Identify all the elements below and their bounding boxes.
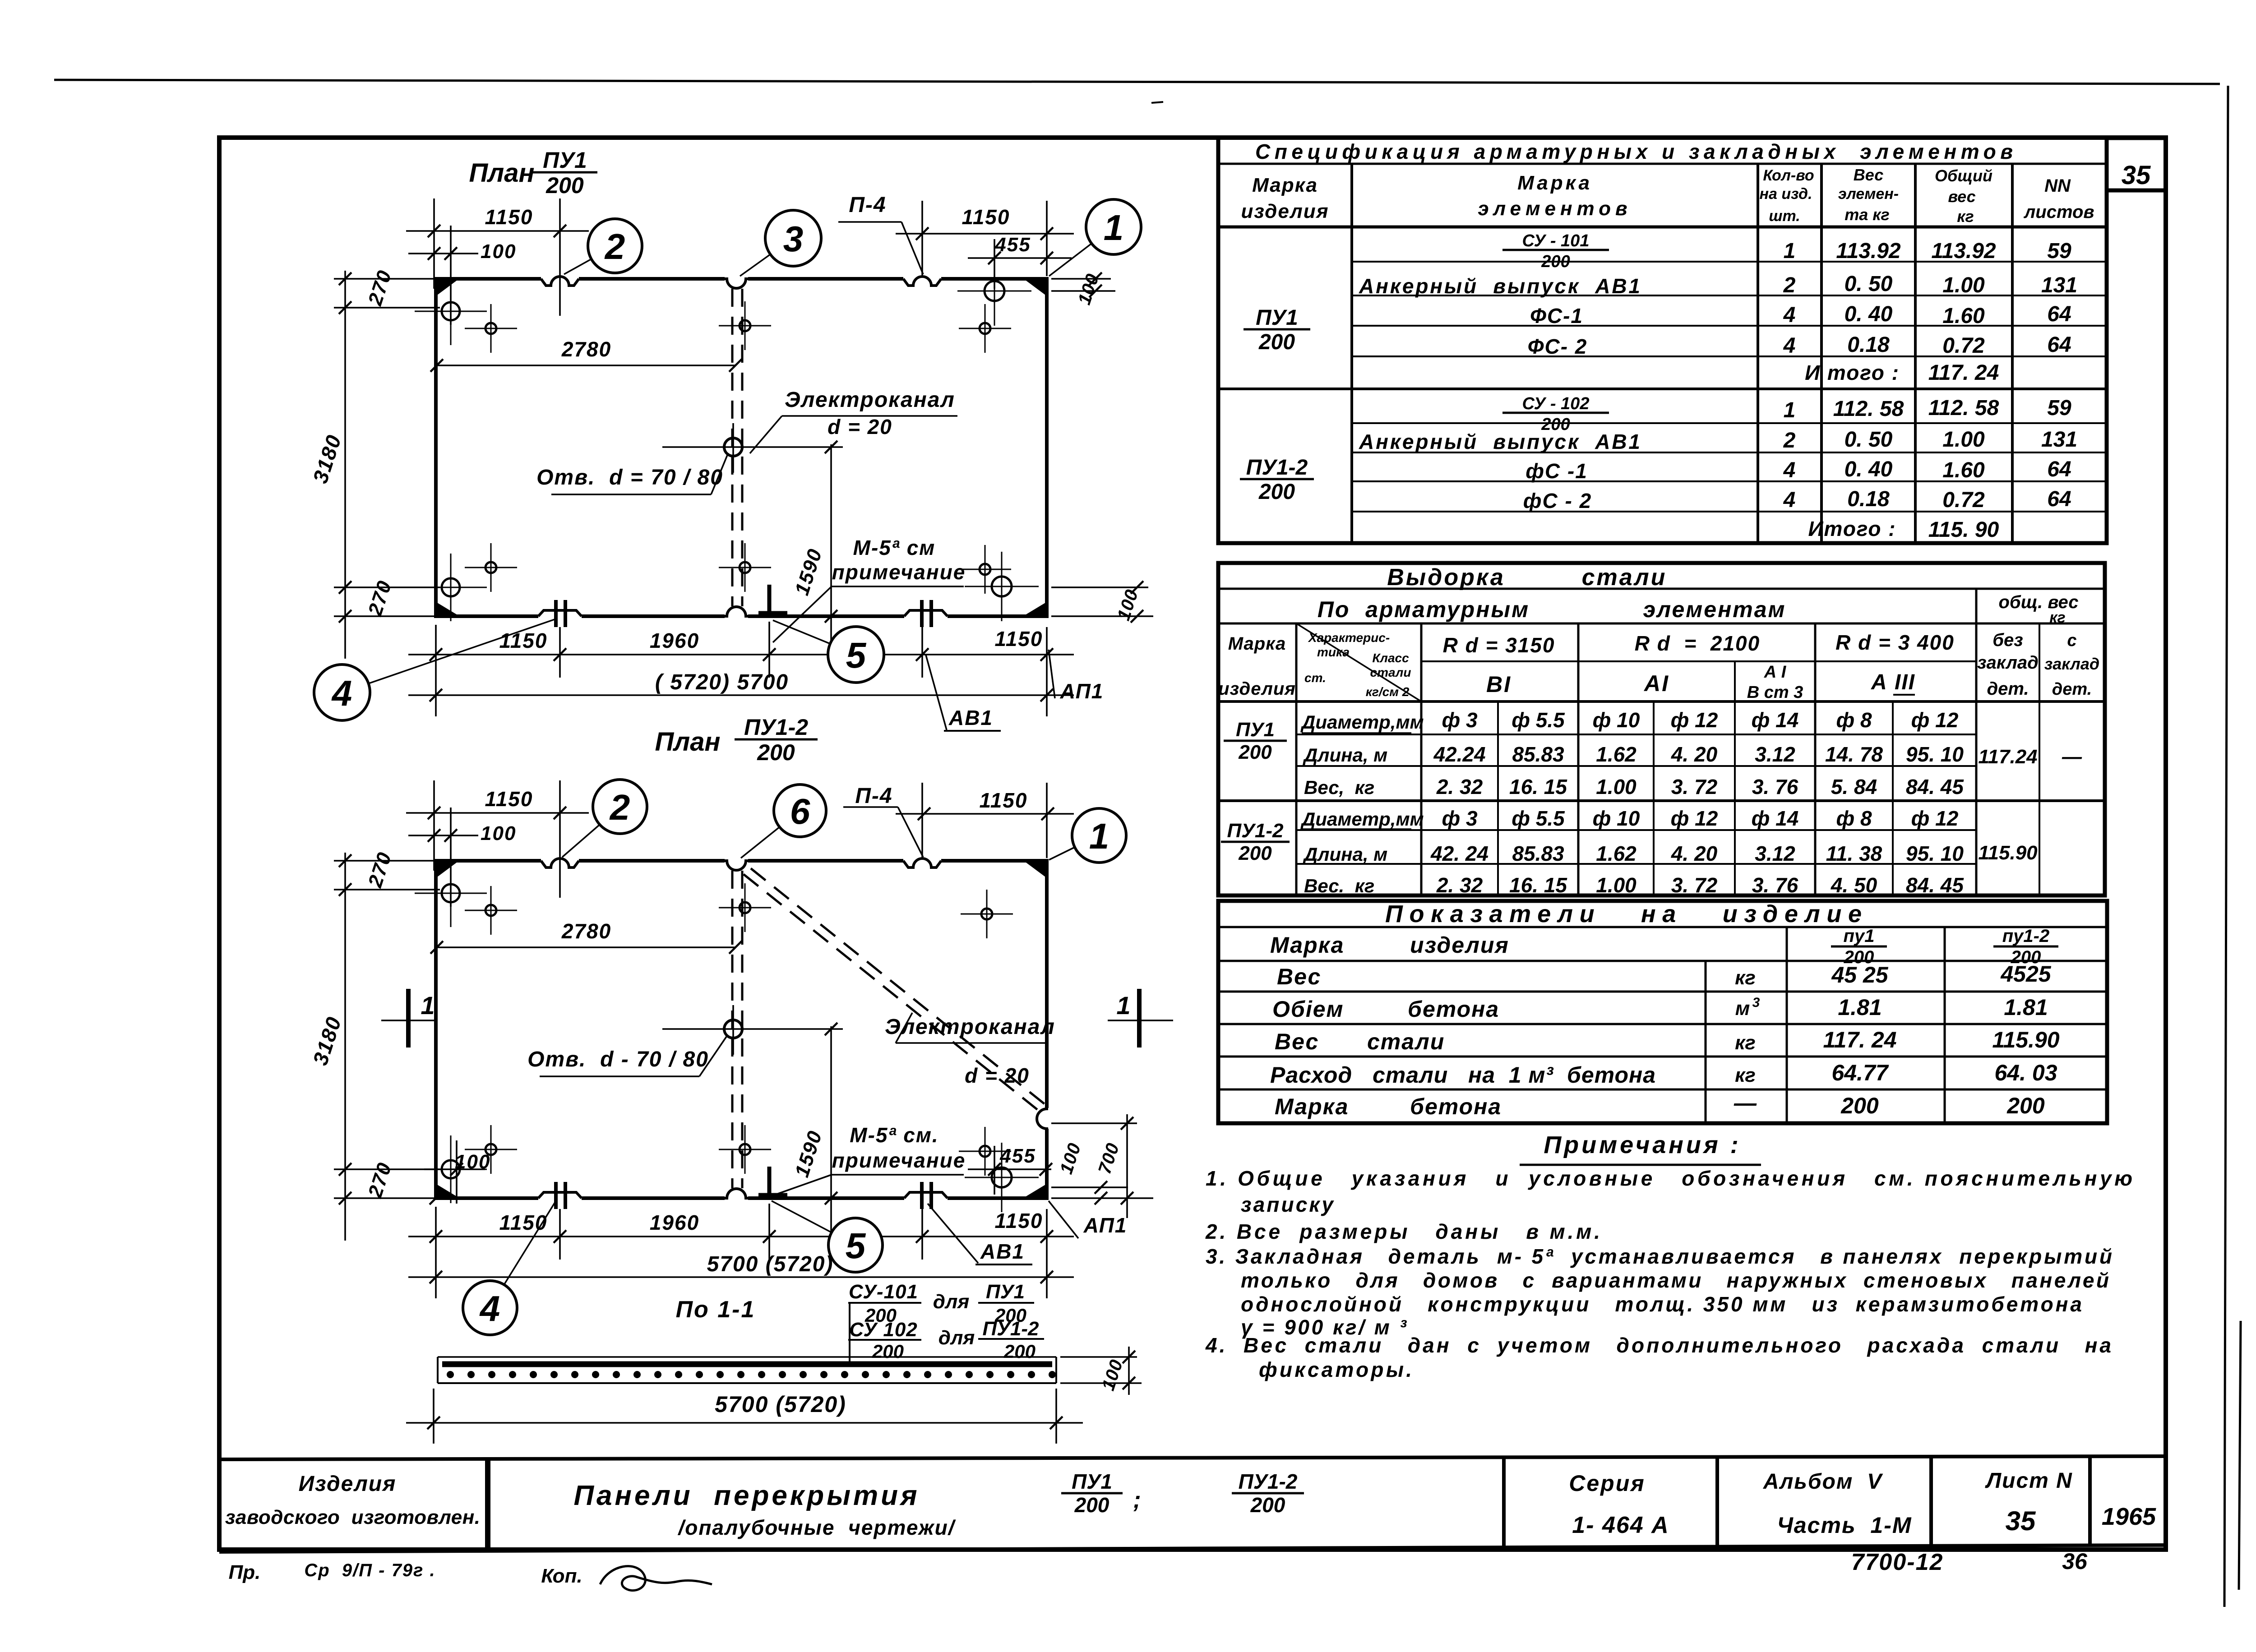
svg-text:1: 1 — [1089, 816, 1110, 856]
dim 1590 vertical of plan PU1-2 — [830, 1026, 832, 1235]
svg-text:4525: 4525 — [2000, 961, 2051, 987]
svg-text:4. 50: 4. 50 — [1831, 873, 1877, 897]
section slab rebar dots — [447, 1371, 454, 1378]
svg-text:изделия: изделия — [1218, 679, 1296, 699]
svg-text:113.92: 113.92 — [1836, 239, 1901, 263]
svg-text:1.81: 1.81 — [2004, 995, 2048, 1020]
panel PU1-2 top notch at callout 2 — [541, 857, 579, 864]
svg-text:0. 50: 0. 50 — [1845, 428, 1893, 452]
dim 100 top-left of plan PU1-2 — [450, 808, 452, 907]
svg-text:Лист N: Лист N — [1985, 1469, 2073, 1493]
svg-text:листов: листов — [2023, 202, 2094, 222]
svg-text:общ. вес: общ. вес — [1999, 592, 2079, 612]
svg-text:элементов: элементов — [1478, 198, 1632, 220]
svg-text:1150: 1150 — [485, 205, 533, 229]
svg-text:3. 76: 3. 76 — [1752, 873, 1798, 897]
section slab outline — [438, 1356, 1056, 1358]
dim 100 bottom-left of plan PU1-2 — [456, 1140, 458, 1204]
svg-text:СУ - 101: СУ - 101 — [1522, 231, 1590, 250]
panel PU1-2 anchor circle top-left — [442, 884, 460, 902]
svg-text:1. Общие указания и услов: 1. Общие указания и условные обозначения… — [1206, 1167, 2133, 1190]
panel PU1-2 bottom AV1 anchor marks left — [538, 1194, 582, 1202]
svg-text:2780: 2780 — [561, 337, 611, 361]
svg-text:200: 200 — [1238, 842, 1272, 864]
svg-text:6: 6 — [790, 791, 810, 831]
svg-text:100: 100 — [455, 1151, 490, 1173]
svg-text:Серия: Серия — [1569, 1471, 1645, 1496]
svg-text:4: 4 — [1783, 303, 1796, 327]
panel PU1 top notch at callout 2 — [541, 275, 579, 282]
svg-text:117. 24: 117. 24 — [1928, 361, 1999, 385]
svg-text:В ст 3: В ст 3 — [1747, 683, 1803, 702]
panel PU1-2 small anchor circle bottom-right — [980, 1146, 990, 1157]
svg-text:ф 8: ф 8 — [1836, 708, 1872, 732]
svg-text:1150: 1150 — [499, 629, 548, 652]
panel PU1-2 bottom center channel notch — [725, 1195, 748, 1201]
svg-text:ф 14: ф 14 — [1752, 807, 1799, 830]
section label SU-101/200 dlya PU1/200 — [849, 1302, 851, 1362]
svg-text:Вес: Вес — [1275, 1029, 1319, 1054]
dim 2780 of plan PU1 — [437, 365, 735, 366]
svg-text:Длина, м: Длина, м — [1303, 844, 1387, 865]
svg-text:—: — — [1734, 1090, 1757, 1116]
svg-text:записку: записку — [1241, 1193, 1334, 1216]
svg-text:200: 200 — [1541, 252, 1570, 271]
svg-text:200: 200 — [1258, 330, 1295, 354]
svg-text:ПУ1: ПУ1 — [986, 1281, 1025, 1303]
svg-text:ФС- 2: ФС- 2 — [1528, 335, 1588, 358]
panel PU1-2 corner triangle top-right — [1026, 863, 1045, 877]
table specification row lines group PU1 — [1352, 261, 2107, 263]
table indicators title — [1218, 926, 2107, 928]
dim 100 right bottom rotated — [1051, 586, 1148, 588]
svg-text:59: 59 — [2047, 239, 2071, 263]
svg-text:ПУ1-2: ПУ1-2 — [1227, 820, 1284, 842]
dim 1150 top-right of plan PU1-2 — [921, 783, 923, 857]
svg-text:1- 464 А: 1- 464 А — [1572, 1512, 1669, 1538]
panel PU1-2 electric channel dashed pair vertical — [731, 871, 734, 1188]
svg-text:заклад: заклад — [2044, 655, 2099, 673]
svg-text:без: без — [1992, 630, 2023, 650]
svg-text:d = 20: d = 20 — [828, 415, 892, 438]
svg-text:100: 100 — [481, 822, 516, 844]
svg-text:Диаметр,мм: Диаметр,мм — [1300, 808, 1424, 830]
svg-text:И того :: И того : — [1805, 361, 1900, 384]
svg-text:64. 03: 64. 03 — [1994, 1060, 2057, 1085]
svg-text:Диаметр,мм: Диаметр,мм — [1300, 711, 1424, 733]
title block divider 1 — [485, 1459, 490, 1552]
svg-text:с: с — [2067, 631, 2076, 650]
svg-text:ФС-1: ФС-1 — [1530, 304, 1583, 328]
svg-text:ф 8: ф 8 — [1836, 807, 1872, 830]
callout circle 6 of plan PU1-2 — [741, 827, 780, 858]
svg-text:1: 1 — [1116, 991, 1130, 1020]
svg-text:однослойной конструкции то: однослойной конструкции толщ. 350 мм из … — [1241, 1292, 2082, 1316]
svg-text:А I: А I — [1764, 663, 1787, 682]
svg-text:бетона: бетона — [1410, 1094, 1502, 1119]
svg-text:элементам: элементам — [1643, 597, 1786, 622]
svg-text:фС - 2: фС - 2 — [1523, 489, 1592, 512]
svg-text:пу1: пу1 — [1844, 926, 1875, 946]
svg-text:ВI: ВI — [1486, 672, 1512, 697]
svg-text:ф 12: ф 12 — [1671, 708, 1718, 732]
panel PU1-2 anchor circle bottom-right — [992, 1167, 1012, 1187]
svg-text:По арматурным: По арматурным — [1318, 597, 1530, 622]
svg-text:3: 3 — [1752, 995, 1760, 1010]
svg-text:1.00: 1.00 — [1942, 273, 1985, 297]
svg-text:113.92: 113.92 — [1931, 239, 1996, 263]
svg-text:бетона: бетона — [1408, 997, 1499, 1022]
svg-text:2. 32: 2. 32 — [1436, 775, 1483, 798]
svg-text:0. 40: 0. 40 — [1845, 302, 1893, 326]
panel PU1 electric channel dashed pair — [731, 289, 734, 606]
svg-text:131: 131 — [2041, 273, 2077, 297]
sheet right border line — [2224, 86, 2228, 1607]
svg-text:Марка: Марка — [1252, 174, 1318, 196]
panel PU1 anchor circle top-right — [985, 281, 1004, 301]
dim 1150 top-right of plan PU1 — [921, 201, 923, 275]
svg-text:84. 45: 84. 45 — [1906, 873, 1964, 897]
svg-text:11. 38: 11. 38 — [1826, 842, 1882, 865]
title block divider 2 — [1502, 1457, 1506, 1546]
svg-text:3.12: 3.12 — [1755, 842, 1795, 865]
sheet right inner short line — [2239, 1321, 2241, 1590]
svg-text:СУ-101: СУ-101 — [849, 1281, 918, 1303]
section dim 100 rotated — [1060, 1356, 1137, 1358]
svg-text:45 25: 45 25 — [1831, 962, 1888, 988]
svg-text:16. 15: 16. 15 — [1509, 775, 1567, 798]
svg-text:117. 24: 117. 24 — [1823, 1027, 1896, 1052]
panel PU1 bottom AV1 anchor marks right — [904, 612, 948, 620]
plan PU1 bottom dim (5720) 5700 — [408, 694, 1074, 696]
svg-text:64.77: 64.77 — [1831, 1060, 1889, 1085]
svg-text:4: 4 — [331, 673, 352, 713]
svg-text:115.90: 115.90 — [1978, 842, 2038, 864]
panel PU1 anchor circle bottom-left — [442, 578, 460, 596]
panel PU1 small anchor circle top-right — [980, 323, 990, 334]
svg-text:35: 35 — [2006, 1506, 2036, 1536]
panel PU1-2 hole Otv d-70/80 circle — [724, 1020, 742, 1038]
svg-text:ПУ1-2: ПУ1-2 — [1239, 1470, 1298, 1493]
svg-text:П-4: П-4 — [855, 784, 892, 808]
svg-text:ф 12: ф 12 — [1911, 708, 1959, 732]
table specification header bottom line — [1218, 226, 2107, 229]
svg-text:0.18: 0.18 — [1847, 333, 1890, 357]
title block divider 5 — [2088, 1456, 2092, 1546]
panel PU1 small anchor circle bottom-right — [980, 564, 990, 575]
panel PU1-2 right edge channel notch — [1044, 1108, 1050, 1129]
dim 455 top-right of plan PU1 — [994, 239, 995, 289]
svg-text:только для домов с вари: только для домов с вариантами наружных с… — [1241, 1269, 2109, 1292]
svg-text:кг: кг — [1735, 1064, 1756, 1086]
svg-text:64: 64 — [2047, 487, 2071, 511]
sheet number box 35 — [2107, 138, 2166, 190]
panel PU1 bottom center channel notch — [725, 613, 748, 619]
svg-text:кг: кг — [1735, 1032, 1756, 1054]
dim 1590 vertical of plan PU1 — [830, 444, 832, 653]
svg-text:элемен-: элемен- — [1838, 185, 1899, 203]
svg-text:пу1-2: пу1-2 — [2002, 926, 2050, 946]
callout circle 4 of plan PU1 — [369, 619, 556, 683]
svg-text:R d = 3150: R d = 3150 — [1443, 633, 1555, 657]
svg-text:АВ1: АВ1 — [980, 1240, 1025, 1263]
dim 100 and 700 right rotated of plan PU1-2 — [1051, 1122, 1137, 1124]
svg-text:4. Вес стали дан с учето: 4. Вес стали дан с учетом дополнительног… — [1205, 1334, 2112, 1357]
svg-text:/опалубочные чертежи/: /опалубочные чертежи/ — [677, 1516, 956, 1539]
svg-text:АВ1: АВ1 — [948, 706, 993, 729]
svg-text:95. 10: 95. 10 — [1906, 743, 1964, 766]
panel PU1-2 top notch P-4 — [903, 857, 941, 864]
panel PU1-2 top center channel notch — [725, 858, 748, 864]
svg-text:117.24: 117.24 — [1978, 746, 2037, 768]
svg-text:АП1: АП1 — [1083, 1214, 1128, 1237]
svg-text:200: 200 — [1003, 1341, 1036, 1362]
table indicators outer border — [1218, 901, 2107, 1123]
svg-text:36: 36 — [2062, 1549, 2088, 1574]
svg-text:Вес: Вес — [1854, 166, 1883, 184]
svg-text:ПУ1: ПУ1 — [1256, 306, 1298, 330]
svg-text:Итого :: Итого : — [1808, 517, 1896, 540]
table specification column lines — [1350, 164, 1353, 543]
svg-text:Вес, кг: Вес, кг — [1304, 777, 1374, 798]
sheet top rule line — [54, 80, 2220, 84]
panel PU1 small anchor circle bottom-left — [485, 562, 496, 573]
section mark 1 right of plan PU1-2 — [1137, 989, 1142, 1047]
svg-text:План: План — [469, 158, 534, 188]
svg-text:64: 64 — [2047, 457, 2071, 481]
svg-text:4: 4 — [1783, 334, 1796, 358]
svg-text:СУ - 102: СУ - 102 — [1522, 394, 1590, 413]
panel PU1-2 corner triangle top-left — [437, 863, 457, 877]
svg-text:изделия: изделия — [1410, 932, 1509, 958]
svg-text:та кг: та кг — [1845, 205, 1890, 224]
panel PU1 top notch P-4 — [903, 275, 941, 282]
svg-text:для: для — [933, 1291, 970, 1313]
svg-text:( 5720) 5700: ( 5720) 5700 — [655, 670, 789, 694]
registration tick top center — [1151, 102, 1163, 103]
svg-text:1960: 1960 — [650, 629, 699, 652]
svg-text:131: 131 — [2041, 428, 2077, 452]
svg-text:2: 2 — [604, 226, 625, 267]
svg-text:200: 200 — [872, 1341, 904, 1362]
left vertical dim line of plan PU1-2 — [344, 853, 346, 1241]
svg-text:455: 455 — [999, 1145, 1036, 1167]
svg-text:200: 200 — [1840, 1093, 1879, 1118]
table specification row lines group PU1-2 — [1352, 422, 2107, 424]
svg-text:—: — — [2062, 746, 2082, 768]
svg-text:Обiем: Обiем — [1272, 997, 1344, 1022]
svg-text:1.00: 1.00 — [1596, 775, 1637, 798]
svg-text:фС -1: фС -1 — [1526, 459, 1588, 483]
svg-text:200: 200 — [1238, 741, 1272, 763]
svg-text:Альбом V: Альбом V — [1763, 1470, 1883, 1494]
title block divider 3 — [1715, 1457, 1719, 1546]
svg-text:1.62: 1.62 — [1596, 743, 1637, 766]
svg-text:Марка: Марка — [1270, 932, 1344, 958]
svg-text:А III: А III — [1871, 670, 1915, 694]
svg-text:5700 (5720): 5700 (5720) — [715, 1392, 846, 1417]
panel PU1 anchor circle top-left — [442, 302, 460, 320]
svg-text:ф 14: ф 14 — [1752, 708, 1799, 732]
svg-text:Общий: Общий — [1935, 166, 1992, 185]
svg-text:Электроканал: Электроканал — [885, 1015, 1055, 1039]
svg-text:112. 58: 112. 58 — [1833, 397, 1904, 421]
svg-text:16. 15: 16. 15 — [1509, 873, 1567, 897]
svg-text:42. 24: 42. 24 — [1430, 842, 1489, 865]
svg-text:1150: 1150 — [980, 789, 1028, 812]
panel PU1 channel circle lower — [740, 562, 750, 573]
svg-text:59: 59 — [2047, 396, 2071, 420]
table indicators grid lines — [1218, 960, 2107, 962]
callout circle 1 of plan PU1-2 — [1049, 847, 1075, 860]
dim 455 bottom-right of plan PU1-2 — [994, 1146, 995, 1195]
dim 100 top-left of plan PU1 — [450, 226, 452, 325]
table specification group separator line — [1218, 388, 2107, 390]
table steel outer border — [1218, 563, 2105, 895]
svg-text:3. 76: 3. 76 — [1752, 775, 1798, 798]
svg-text:2: 2 — [609, 787, 630, 827]
table steel header bottom line — [1218, 700, 2105, 703]
panel PU1-2 anchor circle bottom-left — [442, 1160, 460, 1178]
svg-text:2. 32: 2. 32 — [1436, 873, 1483, 897]
svg-text:4: 4 — [479, 1288, 500, 1329]
panel PU1 embedded detail M-5 mark — [767, 585, 772, 614]
svg-text:фиксаторы.: фиксаторы. — [1259, 1358, 1412, 1381]
drawing frame border — [219, 138, 2166, 1550]
svg-text:Анкерный выпуск АВ1: Анкерный выпуск АВ1 — [1359, 274, 1641, 298]
svg-text:Класс: Класс — [1372, 651, 1409, 665]
svg-text:7700-12: 7700-12 — [1851, 1549, 1944, 1575]
left vertical dim line of plan PU1 — [344, 271, 346, 659]
svg-text:1.00: 1.00 — [1942, 428, 1985, 452]
table steel vertical lines — [1295, 623, 1298, 895]
svg-text:Длина, м: Длина, м — [1303, 744, 1387, 766]
svg-text:1: 1 — [1784, 239, 1796, 263]
svg-text:4: 4 — [1783, 488, 1796, 512]
svg-text:изделия: изделия — [1241, 200, 1329, 222]
svg-text:ф 3: ф 3 — [1442, 708, 1477, 732]
svg-text:для: для — [938, 1327, 975, 1349]
svg-text:стали: стали — [1367, 1029, 1445, 1054]
svg-text:1.60: 1.60 — [1942, 304, 1985, 328]
svg-text:0. 50: 0. 50 — [1845, 272, 1893, 296]
svg-text:стали: стали — [1370, 665, 1411, 679]
panel PU1 channel circle upper — [740, 320, 750, 331]
svg-text:1965: 1965 — [2102, 1503, 2156, 1530]
svg-text:R d = 2100: R d = 2100 — [1635, 632, 1760, 655]
panel PU1-2 outline — [436, 861, 1047, 1198]
svg-text:64: 64 — [2047, 302, 2071, 326]
svg-text:СУ 102: СУ 102 — [849, 1319, 918, 1341]
title block top line — [219, 1456, 2166, 1459]
svg-text:П-4: П-4 — [849, 193, 886, 217]
svg-text:1150: 1150 — [995, 1209, 1043, 1232]
svg-text:455: 455 — [994, 234, 1031, 256]
svg-text:5: 5 — [846, 1226, 866, 1266]
svg-text:112. 58: 112. 58 — [1928, 396, 1999, 420]
svg-text:кг/см 2: кг/см 2 — [1366, 685, 1410, 699]
svg-text:0.72: 0.72 — [1942, 334, 1985, 358]
svg-text:дет.: дет. — [1987, 679, 2029, 699]
svg-text:дет.: дет. — [2052, 680, 2092, 699]
svg-text:3. 72: 3. 72 — [1671, 775, 1718, 798]
panel PU1-2 corner triangle bottom-left — [437, 1185, 457, 1196]
svg-text:3. 72: 3. 72 — [1671, 873, 1718, 897]
panel PU1-2 corner triangle bottom-right — [1026, 1185, 1045, 1196]
svg-text:1: 1 — [421, 991, 435, 1020]
svg-text:0.18: 0.18 — [1847, 487, 1890, 511]
svg-text:1150: 1150 — [995, 627, 1043, 651]
svg-text:0.72: 0.72 — [1942, 488, 1985, 512]
dim 1150 top-left of plan PU1 — [433, 198, 435, 289]
svg-text:100: 100 — [481, 240, 516, 263]
plan PU1-2 bottom dim 5700 (5720) — [408, 1276, 1074, 1278]
panel PU1-2 channel circle upper — [740, 902, 750, 913]
svg-text:заводского изготовлен.: заводского изготовлен. — [225, 1506, 481, 1528]
svg-text:М-5ª см: М-5ª см — [853, 536, 936, 559]
title block divider 4 — [1929, 1456, 1933, 1546]
svg-text:Часть 1-М: Часть 1-М — [1777, 1513, 1912, 1538]
svg-text:ст.: ст. — [1304, 671, 1326, 685]
svg-text:Отв. d - 70 / 80: Отв. d - 70 / 80 — [527, 1047, 709, 1071]
svg-text:64: 64 — [2047, 333, 2071, 357]
table steel subtitle row — [1218, 623, 2105, 625]
svg-text:Пр.: Пр. — [229, 1561, 261, 1583]
svg-text:85.83: 85.83 — [1512, 743, 1564, 766]
panel PU1 outline — [436, 279, 1047, 616]
svg-text:115.90: 115.90 — [1992, 1027, 2059, 1052]
panel PU1 corner triangle bottom-left — [437, 603, 457, 614]
dim 1150 top-left of plan PU1-2 — [433, 780, 435, 871]
callout circle 2 of plan PU1-2 — [562, 825, 600, 857]
svg-text:примечание: примечание — [832, 1149, 966, 1172]
svg-text:Коп.: Коп. — [541, 1565, 582, 1587]
svg-text:200: 200 — [546, 173, 584, 198]
svg-text:ПУ1-2: ПУ1-2 — [1246, 456, 1308, 480]
svg-text:42.24: 42.24 — [1433, 743, 1485, 766]
svg-text:5. 84: 5. 84 — [1831, 775, 1877, 798]
svg-text:115. 90: 115. 90 — [1928, 518, 1999, 542]
svg-text:1960: 1960 — [650, 1211, 699, 1234]
plan PU1 bottom dim row 1150-1960-1150 — [435, 625, 437, 716]
callout circle 3 of plan PU1 — [740, 254, 770, 276]
svg-text:на изд.: на изд. — [1759, 185, 1812, 203]
svg-text:Выдорка: Выдорка — [1387, 564, 1505, 591]
svg-text:ПУ1-2: ПУ1-2 — [744, 715, 808, 740]
svg-text:5: 5 — [846, 635, 867, 675]
svg-text:0. 40: 0. 40 — [1845, 457, 1893, 481]
svg-text:Марка: Марка — [1517, 172, 1592, 194]
section bottom dim 5700 (5720) — [433, 1389, 435, 1444]
panel PU1-2 small anchor circle bottom-left — [485, 1144, 496, 1155]
svg-text:2: 2 — [1783, 429, 1796, 452]
svg-text:ф 3: ф 3 — [1442, 807, 1477, 830]
panel PU1-2 small anchor circle top-left — [485, 905, 496, 916]
svg-text:ПУ1-2: ПУ1-2 — [982, 1318, 1039, 1340]
svg-text:2. Все размеры даны в м.м: 2. Все размеры даны в м.м. — [1205, 1220, 1600, 1243]
svg-text:тика: тика — [1317, 645, 1350, 659]
svg-text:3: 3 — [783, 219, 804, 259]
svg-text:1150: 1150 — [485, 787, 533, 811]
svg-text:;: ; — [1133, 1487, 1141, 1513]
svg-text:ф 12: ф 12 — [1911, 807, 1959, 830]
panel PU1 small anchor circle top-left — [485, 323, 496, 334]
table specification title row line — [1218, 163, 2107, 165]
svg-text:200: 200 — [2006, 1093, 2045, 1118]
svg-text:4: 4 — [1783, 458, 1796, 482]
panel PU1 corner triangle top-right — [1026, 281, 1045, 295]
svg-text:Ср 9/П - 79г .: Ср 9/П - 79г . — [304, 1560, 435, 1580]
